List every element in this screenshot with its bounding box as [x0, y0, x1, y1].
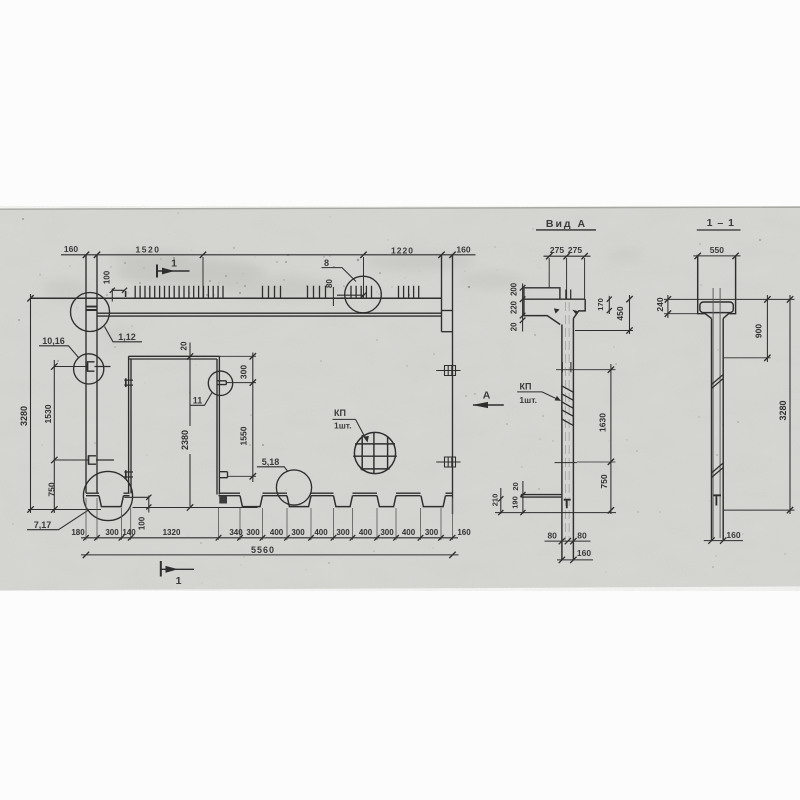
- top dimension line: [61, 254, 476, 256]
- svg-text:5,18: 5,18: [262, 457, 280, 467]
- dim line 5560: [81, 554, 459, 556]
- svg-text:300: 300: [291, 528, 305, 537]
- right edge connector: [442, 310, 453, 312]
- panel top rib line upper: [97, 312, 442, 314]
- KP mesh circle: [354, 432, 395, 473]
- svg-text:220: 220: [510, 300, 519, 314]
- dim 170 right: [608, 296, 610, 314]
- svg-text:1530: 1530: [43, 404, 53, 423]
- svg-text:1: 1: [176, 575, 182, 587]
- clip on opening right edge lower: [219, 472, 227, 478]
- foot anchor 1-1: [713, 495, 721, 505]
- svg-text:100: 100: [138, 516, 147, 530]
- svg-text:200: 200: [510, 282, 519, 296]
- svg-text:1520: 1520: [136, 245, 161, 255]
- svg-text:80: 80: [325, 279, 334, 288]
- svg-text:1320: 1320: [163, 528, 181, 537]
- leader KP main view: [356, 419, 367, 440]
- bottom dim extension lines: [86, 498, 453, 540]
- detail circle 11: [208, 371, 232, 395]
- panel top rib line lower: [97, 315, 442, 317]
- studs row group B: [263, 286, 281, 299]
- dim line 275 275: [544, 255, 591, 257]
- svg-text:300: 300: [105, 528, 119, 537]
- svg-text:750: 750: [46, 482, 56, 496]
- svg-text:400: 400: [270, 528, 284, 537]
- dim line 1530-750: [53, 360, 55, 513]
- shaft joint marks mid: [555, 462, 577, 464]
- svg-text:450: 450: [615, 306, 625, 320]
- embedded plate lower on left edge: [89, 456, 115, 464]
- dim line 2380 vertical: [189, 343, 191, 507]
- scan top edge: [0, 207, 800, 209]
- joint marks upper 1-1: [712, 375, 724, 389]
- svg-text:20: 20: [180, 341, 189, 350]
- extension lines Vid A top: [549, 258, 584, 299]
- top dimension ticks: [83, 252, 456, 258]
- svg-text:7,17: 7,17: [34, 520, 52, 530]
- lifting loop right: [572, 310, 577, 315]
- dim 210 left line: [500, 488, 502, 514]
- short stud: [125, 291, 127, 297]
- dim 160 bottom Vid A: [557, 559, 593, 561]
- svg-text:80: 80: [547, 531, 557, 541]
- dim line 550: [693, 255, 740, 257]
- svg-text:3280: 3280: [778, 400, 788, 420]
- bottom face lower line: [86, 495, 453, 497]
- dim 100 bottom bracket: [124, 496, 149, 513]
- svg-text:20: 20: [511, 482, 520, 490]
- shaft Vid A left line: [561, 325, 563, 560]
- studs row group D in circle: [351, 286, 372, 299]
- embedded plate upper on right edge: [436, 366, 460, 376]
- extension 240 bottom: [664, 313, 698, 315]
- studs row group E: [399, 286, 419, 299]
- panel right edge inner line: [441, 255, 443, 332]
- dim 900 right 1-1: [766, 295, 768, 362]
- svg-text:140: 140: [122, 528, 136, 537]
- dim 20-190 left line: [522, 481, 524, 514]
- opening top edge: [129, 356, 220, 359]
- shaft 1-1 right line: [722, 319, 724, 541]
- clip on opening left edge lower: [124, 472, 133, 477]
- embedded plate upper on left edge: [88, 362, 111, 371]
- dim line 300-1550 right of opening: [252, 353, 254, 483]
- svg-text:160: 160: [726, 530, 740, 540]
- panel left edge inner line: [96, 255, 98, 493]
- svg-text:750: 750: [599, 474, 609, 488]
- extension lines left dims: [28, 367, 101, 510]
- dim 3280 right 1-1: [789, 295, 791, 514]
- dim 200-220-20 left of flange: [522, 284, 524, 332]
- svg-text:160: 160: [577, 548, 591, 558]
- svg-text:Вид А: Вид А: [546, 218, 587, 230]
- shaft 1-1 left line: [711, 319, 713, 541]
- opening left edge: [129, 356, 131, 493]
- hollow core rounded rect: [700, 302, 733, 313]
- svg-text:300: 300: [380, 528, 394, 537]
- svg-text:10,16: 10,16: [42, 336, 65, 346]
- svg-text:190: 190: [510, 496, 519, 509]
- svg-text:8: 8: [324, 258, 329, 268]
- detail circle 7,17: [83, 471, 132, 520]
- panel right edge outer line: [452, 255, 454, 514]
- black plate at opening right foot: [219, 496, 227, 504]
- svg-text:А: А: [483, 390, 491, 402]
- flange outline Vid A: [524, 288, 585, 325]
- shaft Vid A inner bars: [565, 302, 569, 541]
- svg-text:160: 160: [64, 244, 78, 254]
- panel top face line: [31, 297, 442, 299]
- bottom dimension line: [81, 537, 458, 539]
- svg-text:1550: 1550: [238, 426, 248, 445]
- dim 450 right: [629, 295, 631, 334]
- svg-text:20: 20: [510, 322, 519, 331]
- dim 80-80 bottom Vid A: [545, 540, 591, 542]
- shaft Vid A right line: [572, 318, 574, 560]
- svg-text:1220: 1220: [391, 246, 414, 256]
- svg-text:300: 300: [336, 528, 350, 537]
- svg-text:300: 300: [246, 528, 260, 537]
- svg-text:11: 11: [193, 396, 203, 406]
- svg-text:210: 210: [490, 494, 499, 507]
- svg-text:КП: КП: [520, 381, 532, 391]
- baseline extension Vid A: [495, 512, 616, 514]
- svg-text:3280: 3280: [19, 406, 29, 426]
- svg-text:5560: 5560: [251, 545, 275, 555]
- section mark 1 top: [157, 265, 190, 278]
- panel left edge outer line: [85, 255, 87, 493]
- svg-text:900: 900: [753, 324, 763, 338]
- detail circle 1,12: [71, 293, 110, 332]
- bottom dim texts: [71, 528, 471, 537]
- shaft joint marks upper: [562, 362, 571, 372]
- studs row group A: [135, 286, 223, 299]
- svg-text:1,12: 1,12: [118, 332, 136, 342]
- dim 80 bracket in circle 8: [333, 287, 364, 306]
- extension line under opening: [133, 507, 258, 509]
- bottom dimension ticks: [83, 535, 455, 541]
- bottom face upper line: [86, 492, 453, 494]
- foot anchor Vid A: [564, 500, 571, 509]
- section mark 1 bottom: [161, 561, 194, 577]
- svg-text:275: 275: [568, 245, 582, 255]
- section 1-1 top chord outline: [698, 257, 736, 319]
- svg-text:160: 160: [457, 528, 471, 537]
- svg-text:400: 400: [402, 528, 416, 537]
- detail circle 8 top: [345, 276, 382, 313]
- studs row group C: [308, 286, 326, 299]
- svg-text:1 – 1: 1 – 1: [707, 217, 735, 229]
- right edge connector lower: [442, 331, 453, 333]
- svg-text:240: 240: [655, 297, 665, 311]
- scan specks: [12, 212, 786, 584]
- joint marks lower 1-1: [712, 463, 724, 478]
- dim 100 top-left bracket: [112, 289, 124, 302]
- svg-text:550: 550: [710, 245, 724, 255]
- detail circle 5,18: [276, 470, 311, 505]
- svg-text:400: 400: [359, 528, 373, 537]
- extension line joint: [556, 369, 616, 371]
- top face extension line 1-1: [664, 298, 795, 300]
- studs on flange top: [566, 290, 571, 300]
- svg-text:275: 275: [550, 245, 564, 255]
- dim 240 left 1-1: [667, 295, 669, 318]
- lifting loop left: [554, 308, 560, 313]
- svg-text:1шт.: 1шт.: [519, 395, 537, 405]
- svg-text:1: 1: [171, 258, 177, 270]
- svg-text:160: 160: [456, 245, 470, 255]
- paper noise texture: [0, 206, 800, 591]
- extension line 1520 right: [202, 257, 204, 298]
- extension 3280 bottom: [723, 509, 795, 511]
- extension lines right of opening: [219, 356, 256, 476]
- svg-text:100: 100: [103, 270, 112, 284]
- scan smudges: [43, 251, 643, 343]
- opening right edge: [217, 356, 219, 494]
- KP hatch region Vid A: [562, 386, 574, 426]
- embedded plate lower on right edge: [436, 457, 460, 467]
- dim 160 bottom 1-1: [704, 540, 743, 542]
- scanned paper band: [0, 207, 800, 591]
- clip on opening right edge at detail 11: [217, 381, 226, 385]
- rebar bars 1-1: [713, 288, 720, 538]
- svg-text:180: 180: [71, 528, 85, 537]
- svg-text:300: 300: [238, 365, 248, 379]
- svg-text:170: 170: [596, 298, 605, 311]
- svg-text:300: 300: [425, 528, 439, 537]
- svg-text:КП: КП: [334, 408, 346, 418]
- dim line 1630-750: [610, 364, 612, 514]
- leader KP Vid A: [542, 392, 559, 400]
- clip on opening left edge upper: [124, 380, 133, 385]
- extension 900 bottom: [724, 357, 771, 359]
- weld marks in circle 1,12: [86, 307, 97, 310]
- KP mesh grid: [353, 433, 397, 474]
- bottom lugs: [99, 496, 446, 507]
- svg-text:80: 80: [577, 531, 587, 541]
- extension line 1220 left: [363, 257, 365, 299]
- svg-text:1630: 1630: [597, 413, 607, 432]
- dim line 3280 left: [30, 294, 32, 513]
- extension line 450 bottom: [575, 330, 633, 332]
- detail circle 10,16: [74, 354, 104, 384]
- svg-text:1шт.: 1шт.: [334, 421, 352, 431]
- svg-text:400: 400: [314, 528, 328, 537]
- corbel Vid A: [521, 495, 562, 498]
- svg-text:2380: 2380: [180, 430, 190, 450]
- svg-text:340: 340: [229, 528, 243, 537]
